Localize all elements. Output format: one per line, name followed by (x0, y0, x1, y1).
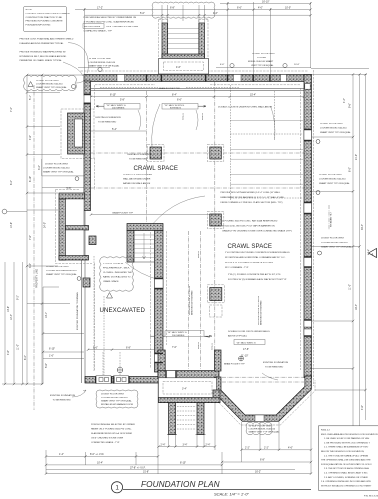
svg-text:1: 1 (115, 485, 119, 492)
right main wall (304, 75, 312, 378)
svg-text:COMPACTED GRADE - TYP: COMPACTED GRADE - TYP (91, 441, 120, 444)
svg-text:SMART VENT TYP OR EQUAL: SMART VENT TYP OR EQUAL (320, 131, 351, 134)
svg-text:11'-0": 11'-0" (17, 344, 20, 350)
top main wall (84, 75, 311, 82)
top wall outer dashed footing (81, 70, 309, 72)
svg-text:ENCLOSED AREA BELOW DESIGN FLO: ENCLOSED AREA BELOW DESIGN FLOOD ELEVATI… (321, 433, 378, 436)
svg-text:4'-4": 4'-4" (343, 98, 346, 103)
svg-text:4'-6": 4'-6" (361, 405, 364, 410)
svg-text:7'-6": 7'-6" (29, 235, 32, 240)
svg-text:2'-4": 2'-4" (161, 443, 166, 446)
svg-text:16"Wx8" FLOOR VENT: 16"Wx8" FLOOR VENT (249, 426, 273, 428)
svg-text:PORCH FINISH AS SELECTED BY OW: PORCH FINISH AS SELECTED BY OWNER (91, 423, 135, 426)
svg-text:17'-6": 17'-6" (243, 348, 249, 351)
svg-text:EXISTING FOUNDATION: EXISTING FOUNDATION (50, 394, 76, 397)
svg-text:16"Wx8" FLOOR VENT: 16"Wx8" FLOOR VENT (320, 123, 344, 125)
svg-text:W8x31: W8x31 (212, 342, 214, 350)
svg-text:SMART VENT TYP OR EQUAL: SMART VENT TYP OR EQUAL (46, 273, 77, 276)
svg-text:7'-2": 7'-2" (10, 107, 13, 112)
svg-text:THE OPENINGS SHALL BE DESIGNED: THE OPENINGS SHALL BE DESIGNED AND THE (321, 459, 371, 462)
right dimension verticals (353, 74, 366, 462)
svg-text:BEAM POCKET TYP: BEAM POCKET TYP (224, 363, 245, 366)
svg-text:ABOVE (TYPICAL): ABOVE (TYPICAL) (228, 335, 247, 338)
svg-text:FOUNDATION PLAN: FOUNDATION PLAN (141, 480, 220, 489)
svg-text:6'-6": 6'-6" (237, 7, 242, 10)
top extension line at x310.5 (310, 2, 312, 68)
svg-text:15'-4": 15'-4" (250, 94, 256, 97)
svg-text:6'-8": 6'-8" (170, 6, 175, 9)
svg-text:10'-4": 10'-4" (97, 462, 103, 465)
svg-text:TO BE REMOVED: TO BE REMOVED (98, 122, 117, 124)
svg-text:21'-0": 21'-0" (355, 154, 358, 160)
svg-text:31'-8": 31'-8" (143, 470, 149, 473)
svg-text:CONTROL JOINTS PER CODE & COMM: CONTROL JOINTS PER CODE & COMMON (26, 13, 70, 15)
svg-text:EXTEND'G: EXTEND'G (170, 108, 181, 110)
svg-text:BRIDGING AT MIDSPAN: BRIDGING AT MIDSPAN (191, 290, 194, 315)
svg-text:4'-6": 4'-6" (213, 12, 218, 15)
svg-text:8'-10": 8'-10" (180, 462, 186, 465)
garage left boundary double line (82, 211, 86, 384)
svg-text:W/ VERTICAL AND HORIZONTAL #4: W/ VERTICAL AND HORIZONTAL #4 REBARS MAX… (225, 256, 286, 259)
svg-text:CHIM./AS FOUNDATION: CHIM./AS FOUNDATION (127, 153, 152, 156)
joist lines right crawl space (230, 120, 303, 184)
svg-text:W8x31: W8x31 (198, 250, 200, 258)
svg-text:17'-2": 17'-2" (97, 7, 103, 10)
svg-text:18'-4": 18'-4" (355, 304, 358, 310)
svg-text:R324.2.2: R324.2.2 (321, 430, 331, 432)
svg-text:7'-0": 7'-0" (172, 346, 177, 349)
extra joist lines right room (230, 134, 303, 198)
svg-text:BITUMINOUS FELT, BELOW GRADE A: BITUMINOUS FELT, BELOW GRADE AROUND (20, 55, 67, 58)
svg-text:2" POURED 3500 PSI CONC. RAT S: 2" POURED 3500 PSI CONC. RAT SLAB REINFO… (222, 220, 278, 223)
house bottom wall left of bay (158, 371, 219, 378)
extra left rotated dim texts (7, 180, 48, 368)
svg-text:NOTE:: NOTE: (26, 9, 33, 11)
svg-text:LOUVER: LOUVER (257, 57, 266, 59)
svg-text:SMART VENT TYP OR EQUAL: SMART VENT TYP OR EQUAL (249, 431, 280, 434)
wall junction caps (84, 74, 312, 383)
svg-text:16"Wx8" FLOOR VENT: 16"Wx8" FLOOR VENT (89, 58, 113, 60)
svg-text:16"Wx8" FLOOR VENT: 16"Wx8" FLOOR VENT (45, 164, 69, 166)
svg-text:"10" SAT.L W/BTL'G: "10" SAT.L W/BTL'G (106, 104, 126, 107)
svg-text:MODEL#540-510 SMART: MODEL#540-510 SMART (248, 60, 274, 63)
svg-text:6'-10": 6'-10" (29, 176, 32, 182)
svg-text:2'-2": 2'-2" (264, 446, 269, 449)
svg-text:"16" SAT.L W/BTL'G: "16" SAT.L W/BTL'G (167, 331, 187, 334)
svg-text:EXISTING FOUNDATION: EXISTING FOUNDATION (96, 116, 122, 119)
svg-text:PROVIDE CONT. FOAM SEAL AND TE: PROVIDE CONT. FOAM SEAL AND TERMITE SHIE… (20, 38, 74, 41)
dashed footing left wall cells (56, 190, 93, 264)
horizontal dash-dot mid (91, 153, 304, 188)
svg-text:2'-2": 2'-2" (245, 446, 250, 449)
svg-text:WALL ABOVE AND UNDER: WALL ABOVE AND UNDER (123, 178, 151, 181)
bay vent bubble (246, 422, 272, 435)
svg-text:PROVIDE TROWELED WATERPROOFING: PROVIDE TROWELED WATERPROOFING W/ (20, 51, 66, 54)
top extension line at x84.5 (84, 8, 86, 74)
svg-text:W/ 8"W x 12"D POURED CONCRETE: W/ 8"W x 12"D POURED CONCRETE FOOTING (225, 262, 273, 264)
svg-text:12'-4": 12'-4" (10, 314, 13, 320)
svg-text:W8x31: W8x31 (202, 112, 204, 120)
dim line above wall with circled marks (78, 66, 311, 68)
svg-text:3'-4": 3'-4" (182, 388, 187, 391)
svg-text:TO BE REMOVED: TO BE REMOVED (265, 367, 284, 369)
svg-text:COMPACTED GRADE - TYP: COMPACTED GRADE - TYP (84, 29, 113, 32)
svg-text:200 SERIES: 200 SERIES (112, 108, 125, 110)
left bottom ruler (2, 383, 43, 385)
svg-text:BELOW THE DESIGN FLOOD ELEVATI: BELOW THE DESIGN FLOOD ELEVATION; (321, 450, 365, 453)
beam pocket dashes under top wall (100, 86, 240, 88)
left vent bubble (24, 75, 77, 90)
svg-text:COUNT TLP JOISTS UNDER: COUNT TLP JOISTS UNDER (123, 174, 152, 176)
svg-text:16"Wx8" FLOOR VENT: 16"Wx8" FLOOR VENT (252, 53, 276, 55)
svg-text:9'-6": 9'-6" (349, 103, 352, 108)
svg-text:6'-6": 6'-6" (177, 99, 182, 102)
top dim ticks (83, 2, 311, 16)
svg-text:ON 6" CRUSHED STONE OVER: ON 6" CRUSHED STONE OVER (91, 438, 124, 440)
svg-text:5'-4": 5'-4" (112, 128, 117, 131)
top extension line at x228 (227, 2, 229, 74)
svg-text:W8x31: W8x31 (198, 341, 200, 349)
svg-text:2.1. THERE SHALL BE A MINIMUM: 2.1. THERE SHALL BE A MINIMUM OF TWO (324, 446, 369, 449)
svg-text:UNEXCAVATED: UNEXCAVATED (100, 307, 146, 314)
svg-text:6'-6": 6'-6" (93, 346, 98, 349)
top dimension line row 3 (85, 14, 311, 16)
svg-text:CLOSING - INSULATED THK: CLOSING - INSULATED THK (103, 271, 132, 274)
svg-text:W/ 6x6 10/10, 3N 8 LBS. POLY V: W/ 6x6 10/10, 3N 8 LBS. POLY VAPOR BARRI… (222, 225, 275, 228)
svg-text:4'-6": 4'-6" (288, 446, 293, 449)
svg-text:SMART VENT TYP OR EQUAL: SMART VENT TYP OR EQUAL (36, 86, 67, 89)
svg-text:PORCH/FDN AS SELECTED BY OWNER: PORCH/FDN AS SELECTED BY OWNER PAVER ON (84, 16, 137, 19)
svg-text:TO BE REMOVED: TO BE REMOVED (53, 400, 72, 402)
svg-text:1"H CONTINUOUS POURED CONCRETE: 1"H CONTINUOUS POURED CONCRETE FOUNDATIO… (225, 251, 290, 254)
svg-text:W8 BEAM TILT: W8 BEAM TILT (330, 211, 333, 227)
svg-text:LOUVER MODEL#540-510: LOUVER MODEL#540-510 (321, 242, 348, 244)
A marker (369, 249, 377, 258)
dashed footing around chimney (61, 109, 94, 159)
svg-text:FOR EQUALIZATION OF HYDROSTATI: FOR EQUALIZATION OF HYDROSTATIC FLOOD F (321, 463, 372, 466)
svg-text:11'-10": 11'-10" (241, 355, 248, 358)
svg-text:10'-0": 10'-0" (285, 7, 291, 10)
svg-text:DOUBLE 2x JOISTS UNDER KITCHE: DOUBLE 2x JOISTS UNDER KITCHEN, WALK ABO… (218, 106, 273, 109)
svg-text:5'-8": 5'-8" (120, 99, 125, 102)
svg-text:CRAWL SPACE: CRAWL SPACE (134, 165, 179, 172)
bay dashed footing outside (211, 378, 315, 425)
svg-text:1. BE USED SOLELY FOR PARKING: 1. BE USED SOLELY FOR PARKING OF VEH (324, 437, 370, 440)
svg-text:4'-6": 4'-6" (29, 135, 32, 140)
svg-text:2.4. OPENINGS SHALL BE AT LEAS: 2.4. OPENINGS SHALL BE AT LEAST 3 INC (324, 472, 368, 475)
svg-text:11'-0": 11'-0" (349, 284, 352, 290)
svg-text:16"Wx8" FLOOR VENT: 16"Wx8" FLOOR VENT (46, 266, 70, 268)
svg-text:LOUVER MODEL#540-510: LOUVER MODEL#540-510 (43, 168, 70, 170)
svg-text:LOUVER MODEL#540-510: LOUVER MODEL#540-510 (101, 397, 128, 399)
svg-text:8'-0" +/- V.I.F.: 8'-0" +/- V.I.F. (90, 453, 105, 456)
kitchen bearing double line (91, 89, 304, 91)
garage bottom wall (85, 377, 165, 384)
top dimension line row 2 (75, 9, 311, 11)
svg-text:PROVIDE ROD 5/8"N ANCHORED (5.: PROVIDE ROD 5/8"N ANCHORED (5.3'-4" LONG… (221, 191, 281, 194)
svg-text:INSTALLED AT GARAGE DOOR: INSTALLED AT GARAGE DOOR (101, 403, 133, 406)
svg-text:16"Wx8" FLOOR VENT: 16"Wx8" FLOOR VENT (36, 80, 60, 82)
svg-text:2.6. OPENINGS INSTALLED IN DOO: 2.6. OPENINGS INSTALLED IN DOORS AND WIN (321, 480, 371, 483)
svg-text:BEAM POCKET TYP: BEAM POCKET TYP (113, 212, 134, 215)
svg-text:PROVIDED IN POURED CONCRETE: PROVIDED IN POURED CONCRETE (26, 21, 64, 23)
svg-text:9'-2": 9'-2" (17, 295, 20, 300)
interior dim line below top wall (91, 96, 304, 98)
svg-text:14'-6": 14'-6" (10, 222, 13, 228)
svg-text:16"Wx8" FLOOR VENT: 16"Wx8" FLOOR VENT (319, 174, 343, 176)
svg-text:5'-6": 5'-6" (45, 363, 48, 368)
bottom dimension rows (46, 447, 311, 474)
svg-text:8'-2": 8'-2" (24, 355, 27, 360)
leader curves (152, 104, 160, 148)
bottom right code notes box (319, 426, 378, 491)
svg-text:FOOTING W/ (2)#4 REBARS EACH W: FOOTING W/ (2)#4 REBARS EACH WAY AT BOTT… (228, 278, 287, 281)
svg-text:46'-4": 46'-4" (361, 224, 364, 230)
revision cloud (152, 2, 215, 18)
svg-text:6'-2": 6'-2" (10, 180, 13, 185)
svg-text:EXISTING FOUNDATION TO REMAIN: EXISTING FOUNDATION TO REMAIN (76, 292, 79, 330)
inner footing dashes along left wall (94, 85, 96, 370)
svg-text:LOUVER MODEL#540-510: LOUVER MODEL#540-510 (36, 84, 63, 86)
svg-text:TO BE REMOVED: TO BE REMOVED (129, 159, 148, 161)
svg-text:FLASHING AROUND PERIMETER TYPI: FLASHING AROUND PERIMETER TYPICAL (20, 42, 65, 45)
svg-text:6x6 10/10 WWM: 6x6 10/10 WWM (84, 26, 100, 28)
stair treads (135, 235, 155, 258)
svg-text:W8x31: W8x31 (183, 112, 185, 120)
beam pocket dim (91, 214, 214, 216)
chimney bump (68, 113, 85, 154)
svg-text:SMART VENT TYP OR EQUAL: SMART VENT TYP OR EQUAL (321, 246, 352, 249)
porch interior step lines (top porch) (168, 29, 199, 49)
svg-text:3'-4": 3'-4" (183, 443, 188, 446)
svg-text:2.2. THE TOTAL NET AREA OF ALL: 2.2. THE TOTAL NET AREA OF ALL OPENIN (324, 454, 369, 457)
dashed footing around top porch (159, 20, 209, 59)
porch slab band (159, 390, 221, 403)
svg-text:6'-6": 6'-6" (220, 64, 225, 66)
(vent in bottom wall) (215, 350, 222, 371)
svg-text:EMBEDMENT W/ 3X3 BACKERS @ 3'-: EMBEDMENT W/ 3X3 BACKERS @ 3'-0" O.C. 12… (221, 196, 285, 199)
svg-text:1'-4": 1'-4" (59, 453, 64, 456)
svg-text:F.W. /N.G.S./SCHN. /013: F.W. /N.G.S./SCHN. /013 (364, 496, 378, 498)
svg-text:10'-6": 10'-6" (294, 64, 300, 66)
svg-text:16"Wx8" FLOOR VENT: 16"Wx8" FLOOR VENT (101, 394, 125, 396)
svg-text:LOUVER MODEL#540-510: LOUVER MODEL#540-510 (319, 179, 346, 181)
piers (83, 145, 224, 318)
svg-text:FP50-FIREPROOF - SELF-: FP50-FIREPROOF - SELF- (103, 268, 130, 270)
svg-text:6'-8": 6'-8" (126, 346, 131, 349)
top-left note box (24, 7, 67, 32)
svg-text:VENT TYP OR EQUAL: VENT TYP OR EQUAL (251, 64, 274, 67)
svg-text:16'-10": 16'-10" (262, 1, 270, 4)
door note bubble (100, 257, 134, 291)
svg-text:SLAB REINFORCED W/ 6x6 10/10 W: SLAB REINFORCED W/ 6x6 10/10 WWM (91, 432, 132, 435)
svg-text:SCALE: 1/4" = 1'-0": SCALE: 1/4" = 1'-0" (214, 491, 249, 496)
svg-text:200 SERIES: 200 SERIES (172, 335, 185, 337)
stair / interior wall (127, 224, 163, 231)
svg-text:CRAWL SPACE: CRAWL SPACE (103, 280, 119, 283)
svg-text:24'-0": 24'-0" (44, 222, 47, 228)
stoop (159, 59, 209, 75)
svg-text:8'-4": 8'-4" (172, 94, 177, 97)
svg-text:CRAWL SPACE: CRAWL SPACE (228, 243, 273, 250)
left horizontal crossing ticks (27, 75, 84, 359)
svg-text:WITHOUT INSTALLED OPENINGS DO: WITHOUT INSTALLED OPENINGS DO NOT MEET (321, 484, 372, 487)
dashes in bay interior (222, 381, 304, 383)
dashed outer footing right (313, 70, 315, 386)
svg-text:PAVER ON 4" POURED 3500 PSI CO: PAVER ON 4" POURED 3500 PSI CONC. (91, 428, 132, 431)
svg-text:FROM CORNERS & 2 PER SILL PLAT: FROM CORNERS & 2 PER SILL PLATE SECTION … (221, 201, 283, 204)
svg-text:GRADE (TYP) CRUSHED STONE OVER: GRADE (TYP) CRUSHED STONE OVER COMPACTED… (222, 230, 292, 233)
svg-text:4" POURED 3500 PSI CONC. SLAB: 4" POURED 3500 PSI CONC. SLAB REINFORCED (84, 20, 135, 23)
svg-text:10'-1": 10'-1" (45, 312, 48, 318)
svg-text:3'-2": 3'-2" (38, 165, 41, 170)
inner footing dashes (95, 85, 301, 370)
svg-text:2. BE PROVIDED WITH FLOOD OPEN: 2. BE PROVIDED WITH FLOOD OPENINGS T (324, 442, 370, 444)
svg-text:2.5. ANY LOUVERS, SCREENS OR O: 2.5. ANY LOUVERS, SCREENS OR OTHER (324, 476, 368, 479)
svg-text:2'-4": 2'-4" (206, 443, 211, 446)
top dimension line row 1 (220, 3, 311, 5)
svg-text:W/ 2 #4 REBARS - TYP: W/ 2 #4 REBARS - TYP (225, 266, 249, 269)
svg-text:10'-6": 10'-6" (7, 306, 10, 312)
svg-text:ON 6" CRUSHED STONE OVER: ON 6" CRUSHED STONE OVER (106, 26, 139, 28)
svg-text:DOUBLE FLOOR JOISTS UNDER WALL: DOUBLE FLOOR JOISTS UNDER WALLS (228, 330, 270, 333)
svg-text:2.3. THE BOTTOM OF EACH OPENIN: 2.3. THE BOTTOM OF EACH OPENING SHA (324, 467, 369, 470)
svg-text:5'-1": 5'-1" (29, 95, 32, 100)
property line (dash-dot) (33, 85, 35, 410)
svg-text:4'-0": 4'-0" (258, 7, 263, 10)
svg-text:6'-10": 6'-10" (49, 348, 55, 351)
connector wall garage/house (158, 350, 165, 377)
porch stoop bottom (159, 378, 217, 398)
porch columns (169, 403, 176, 435)
right crossing ticks (312, 137, 366, 390)
svg-text:4'-6": 4'-6" (176, 66, 181, 69)
top extension line at x253.6 (253, 2, 255, 74)
svg-text:LOUVER W/SCREEN=540-310: LOUVER W/SCREEN=540-310 (46, 270, 77, 272)
svg-text:LOUVER MODEL#540-510: LOUVER MODEL#540-510 (320, 128, 347, 130)
svg-text:16'-2": 16'-2" (255, 470, 261, 473)
svg-text:PROPERTY LINE: PROPERTY LINE (36, 269, 39, 288)
porch steps dashed (177, 407, 196, 430)
svg-text:CONSTRUCTION PRACTICE TO BE: CONSTRUCTION PRACTICE TO BE (26, 16, 63, 19)
garage door vent bubble (96, 390, 138, 408)
svg-text:6'-8": 6'-8" (260, 459, 265, 462)
svg-text:8'-10": 8'-10" (110, 94, 116, 97)
svg-text:SMART VENT TYP OR EQUAL: SMART VENT TYP OR EQUAL (101, 400, 132, 403)
svg-text:"16" SAT.L W/BTL'G: "16" SAT.L W/BTL'G (236, 341, 256, 344)
svg-text:BRIDGING AT MIDSPAN: BRIDGING AT MIDSPAN (260, 300, 263, 325)
svg-text:5'-0": 5'-0" (140, 12, 145, 15)
svg-text:FOUNDATION/FOOTING: FOUNDATION/FOOTING (26, 23, 51, 26)
left wall upper (84, 81, 91, 95)
svg-text:SMART VENT TYP OR EQUAL: SMART VENT TYP OR EQUAL (89, 65, 120, 68)
svg-text:PERIMETER OF CRAWL SPACE TYPIC: PERIMETER OF CRAWL SPACE TYPICAL (20, 59, 63, 62)
svg-text:8'-0": 8'-0" (349, 167, 352, 172)
porch walls top (162, 23, 168, 58)
svg-text:SMART VENT TYP OR EQUAL: SMART VENT TYP OR EQUAL (43, 171, 74, 174)
svg-text:37'-8" +/- V.I.F.: 37'-8" +/- V.I.F. (130, 466, 146, 469)
svg-text:1'-3"x2'-0" DOOR W/: 1'-3"x2'-0" DOOR W/ (103, 263, 124, 265)
stoop room arrow dim (165, 331, 204, 337)
svg-text:16"Wx8" FLOOR VENT: 16"Wx8" FLOOR VENT (321, 238, 345, 240)
svg-text:BATHROOM WALK ABOVE: BATHROOM WALK ABOVE (123, 182, 151, 185)
crawl1 small dim (91, 130, 146, 132)
svg-text:LOUVER MODEL#540-510: LOUVER MODEL#540-510 (249, 429, 276, 431)
svg-text:1'-6": 1'-6" (49, 355, 54, 358)
svg-text:4'-8": 4'-8" (7, 350, 10, 355)
svg-text:SMART VENT TYP OR EQUAL: SMART VENT TYP OR EQUAL (319, 182, 350, 185)
left dimension verticals (5, 75, 42, 384)
svg-text:EXISTING FOUNDATION: EXISTING FOUNDATION (263, 361, 289, 364)
bay window band (215, 376, 312, 421)
svg-text:2"W (C). POURED CONCRETE PER A: 2"W (C). POURED CONCRETE PER ALT'N. KIT,… (228, 273, 281, 276)
dash-dot beam lines (147, 82, 215, 369)
svg-text:RATED DOOR ACCESS TO: RATED DOOR ACCESS TO (103, 276, 131, 279)
porch extension lines (162, 5, 205, 23)
garage interior dims (88, 349, 158, 351)
existing foundation dash inside bay (262, 373, 278, 380)
svg-text:LOUVER MODEL#540-510: LOUVER MODEL#540-510 (89, 62, 116, 64)
top extension line at x270.3 (269, 8, 271, 74)
svg-text:"10" SAT.L W/ BTL'G: "10" SAT.L W/ BTL'G (164, 104, 185, 107)
svg-text:3'-0": 3'-0" (29, 263, 32, 268)
left jog / window wells (59, 193, 85, 199)
